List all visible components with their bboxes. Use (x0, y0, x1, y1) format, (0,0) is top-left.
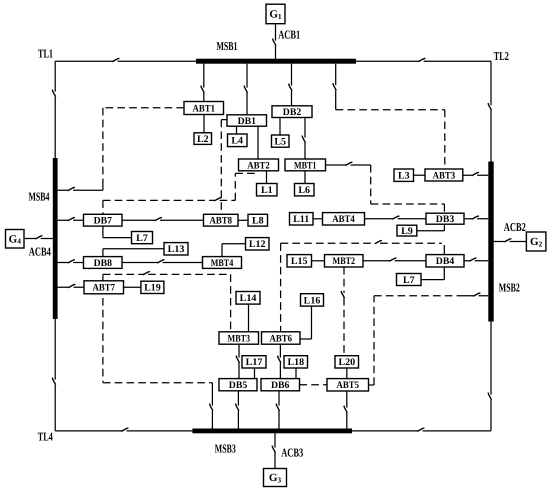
svg-text:DB4: DB4 (436, 256, 454, 267)
wire MSB1 drop to DB2 (289, 64, 292, 106)
wire MBT4 to L12 (222, 244, 246, 257)
wire ABT2 to L1 (266, 171, 268, 184)
load L2 (194, 133, 212, 145)
wire MSB4 to DB8 with breaker (58, 260, 84, 263)
svg-text:ABT8: ABT8 (210, 216, 233, 227)
svg-text:ABT2: ABT2 (247, 160, 270, 171)
distribution box ABT1 (184, 102, 224, 115)
svg-text:MSB4: MSB4 (29, 190, 50, 204)
svg-text:DB2: DB2 (283, 107, 301, 118)
wire dashed stem to DB7 top (102, 200, 104, 214)
wire DB6 to MSB3 with breaker (276, 391, 279, 429)
wire L13 to DB8 (103, 249, 164, 257)
transfer switch MBT4 (203, 257, 242, 269)
svg-text:ACB3: ACB3 (281, 446, 303, 460)
load L8 (248, 214, 268, 226)
wire dashed MBT1 to DB3 (371, 165, 445, 213)
svg-text:ABT4: ABT4 (332, 214, 355, 225)
svg-text:L16: L16 (304, 295, 321, 306)
svg-text:ACB4: ACB4 (29, 244, 51, 258)
svg-text:DB6: DB6 (271, 380, 289, 391)
wire MBT1 to L6 (304, 171, 306, 184)
wire frame left lower segment (MSB4 to TL4) (52, 319, 55, 431)
load L16 (301, 294, 324, 307)
distribution box DB6 (261, 379, 300, 392)
generator G4 (6, 230, 25, 249)
wire L3 to ABT3 (414, 174, 426, 176)
svg-text:L17: L17 (246, 357, 263, 368)
wire ABT8 to L8 (238, 219, 248, 221)
load L6 (295, 184, 315, 197)
wire dashed net below DB8 with breaker (103, 272, 231, 275)
svg-text:L15: L15 (291, 256, 308, 267)
wire DB1 to ABT2 (257, 126, 259, 159)
svg-text:MBT4: MBT4 (211, 258, 234, 269)
load L15 (287, 255, 312, 268)
svg-text:MBT1: MBT1 (294, 160, 317, 171)
load L20 (335, 356, 359, 369)
svg-text:TL1: TL1 (38, 46, 53, 60)
transfer switch ABT7 (84, 281, 124, 294)
load L11 (290, 213, 314, 226)
generator G3 (264, 469, 287, 487)
svg-text:MBT2: MBT2 (333, 256, 356, 267)
wire G3 stem with breaker ACB3 (272, 433, 275, 468)
wire dashed drop to MBT3 (230, 274, 232, 331)
load L3 (394, 169, 414, 182)
wire G2 feed with breaker ACB2 (494, 239, 527, 242)
svg-text:L14: L14 (240, 293, 257, 304)
wire L14 to MBT3 (248, 304, 250, 332)
wire ABT4 to DB3 with breaker (365, 216, 427, 219)
load L7 left (132, 232, 153, 245)
wire DB8 to MBT4 with breaker (122, 260, 203, 263)
svg-text:L1: L1 (261, 185, 273, 196)
wire dashed ABT5 right feed (369, 296, 459, 385)
svg-text:MSB2: MSB2 (499, 281, 520, 295)
svg-text:ABT5: ABT5 (337, 380, 360, 391)
wire feed to MSB2 with breaker (458, 293, 488, 296)
wire MSB4 to DB7 with breaker (58, 217, 84, 220)
bus MSB4 (53, 158, 58, 319)
svg-text:L3: L3 (398, 171, 410, 182)
svg-text:L13: L13 (168, 244, 185, 255)
wire frame right lower segment (MSB2 to corner) (488, 322, 491, 431)
svg-text:DB1: DB1 (238, 116, 256, 127)
wire stem to DB4 top (443, 245, 445, 255)
distribution box DB5 (219, 379, 257, 392)
load L19 (141, 281, 164, 294)
svg-text:MBT3: MBT3 (228, 333, 251, 344)
distribution box DB7 (84, 214, 123, 226)
wire dashed drop to ABT6 (280, 243, 282, 331)
load L1 (257, 184, 278, 197)
distribution box DB4 (426, 255, 464, 268)
transfer switch ABT4 (323, 213, 365, 226)
wire dashed MBT2 drop to L20 (341, 267, 344, 356)
svg-text:ACB1: ACB1 (278, 27, 300, 41)
load L17 (242, 356, 266, 369)
svg-text:L4: L4 (231, 136, 243, 147)
load L12 (246, 238, 270, 251)
wire L17 to DB5 (254, 368, 256, 379)
wire ABT7 to L19 (124, 286, 141, 288)
svg-text:L8: L8 (252, 216, 264, 227)
transfer switch MBT2 (325, 255, 364, 268)
wire dashed left riser to MSB4 feed (102, 108, 104, 183)
wire L11 to ABT4 (313, 218, 323, 220)
distribution box DB2 (272, 106, 312, 118)
svg-text:L12: L12 (249, 239, 266, 250)
wire MBT1 right with breaker (326, 162, 371, 165)
wire ABT3 to MSB2 with breaker (463, 172, 489, 175)
load L9 (397, 225, 417, 237)
wire dashed horizontal net with breaker (103, 198, 235, 201)
svg-text:L2: L2 (197, 134, 209, 145)
wire ABT6 to DB6 with breaker (278, 344, 281, 378)
wire dashed feed from MSB1 to ABT3 (336, 110, 445, 169)
wire ABT1 to L2 (203, 115, 205, 134)
bus MSB2 (488, 162, 493, 322)
wire dashed DB6 to ABT5 (300, 384, 328, 386)
svg-text:ACB2: ACB2 (504, 220, 526, 234)
wire L7 to DB4 (421, 266, 444, 280)
wire MSB4 feed A with breaker (58, 183, 103, 191)
load L5 (272, 135, 290, 148)
transfer switch ABT2 (239, 159, 279, 171)
wire MBT3 to DB5 with breaker (236, 344, 239, 378)
load L14 (236, 292, 260, 305)
transfer switch ABT3 (425, 169, 463, 181)
wire DB4 to MSB2 with breaker (464, 258, 488, 261)
svg-text:L20: L20 (338, 357, 355, 368)
wire L9 to DB3 (417, 224, 445, 231)
transfer switch ABT8 (204, 214, 239, 226)
svg-text:DB7: DB7 (94, 216, 112, 227)
svg-text:ABT1: ABT1 (193, 103, 216, 114)
wire frame right upper segment (TL2 to MSB2) (488, 61, 491, 161)
wire MSB4 to ABT7 with breaker (58, 284, 84, 287)
wire DB7 to ABT8 with breaker (122, 217, 204, 220)
load L4 (228, 134, 248, 147)
wire frame left upper segment (TL1 to MSB4) (52, 61, 55, 158)
wire frame top-right segment (MSB1 to TL2) (356, 58, 491, 61)
wire frame bottom-right segment (MSB3 to corner) (352, 428, 491, 431)
wire dashed DB1 left drop to ABT8 (221, 120, 227, 215)
wire dashed riser through ABT7 (102, 274, 104, 382)
wire dashed group rectangle top with breaker (281, 240, 442, 243)
wire DB5 to MSB3 with breaker (236, 391, 239, 429)
wire ABT5 to MSB3 with breaker (344, 391, 347, 429)
svg-text:L6: L6 (298, 185, 310, 196)
wire L15 to MBT2 (312, 260, 325, 262)
svg-text:L7: L7 (136, 233, 148, 244)
svg-text:ABT6: ABT6 (270, 333, 293, 344)
distribution box DB3 (426, 213, 464, 225)
wire frame bottom-left segment (TL4 to MSB3) (55, 428, 192, 431)
load L18 (284, 356, 308, 369)
svg-text:DB3: DB3 (436, 214, 454, 225)
svg-text:L7: L7 (403, 275, 415, 286)
wire riser to MSB3 with breaker (210, 383, 213, 429)
generator G2 (526, 232, 546, 251)
wire MSB1 drop to DB1 (244, 64, 247, 115)
wire dashed ABT1 to node at left (103, 107, 184, 109)
distribution box DB1 (227, 115, 267, 127)
svg-text:L19: L19 (144, 283, 161, 294)
wire L20 to ABT5 (346, 368, 348, 379)
wire dashed ABT7 branch to MSB3 riser (103, 382, 212, 384)
wire DB3 to MSB2 with breaker (464, 216, 488, 219)
svg-text:L9: L9 (401, 226, 413, 237)
wire DB1 to L4 (236, 126, 238, 134)
svg-text:MSB3: MSB3 (215, 442, 236, 456)
load L13 (164, 243, 188, 256)
transfer switch MBT3 (219, 332, 259, 345)
svg-text:L18: L18 (287, 357, 304, 368)
svg-text:ABT7: ABT7 (93, 283, 116, 294)
wire MBT2 to DB4 with breaker (363, 258, 426, 261)
wire L16 to ABT6 (300, 306, 312, 339)
wire DB7 to L7 (103, 226, 132, 238)
wire DB2 to MBT1 with breaker (302, 118, 305, 160)
wire G4 feed with breaker ACB4 (24, 236, 53, 239)
wire DB2 to L5 (279, 118, 281, 136)
wire MSB1 drop 4 with breaker (333, 64, 336, 110)
svg-text:DB8: DB8 (94, 258, 112, 269)
load L7 right (397, 274, 422, 286)
bus MSB3 (192, 429, 352, 434)
distribution box DB8 (84, 257, 123, 269)
svg-text:TL2: TL2 (494, 49, 509, 63)
bus MSB1 (196, 59, 356, 64)
svg-text:TL4: TL4 (38, 429, 53, 443)
svg-text:L5: L5 (274, 137, 286, 148)
wire MSB1 drop to ABT1 (201, 64, 204, 102)
wire dashed net corner to ABT2 (235, 173, 258, 200)
wire G1 stem with breaker ACB1 (273, 24, 276, 59)
svg-text:DB5: DB5 (229, 380, 247, 391)
transfer switch ABT5 (327, 379, 369, 392)
transfer switch MBT1 (285, 159, 326, 171)
transfer switch ABT6 (262, 332, 301, 345)
wire frame top-left segment (TL1 to MSB1) (55, 58, 196, 61)
svg-text:MSB1: MSB1 (217, 39, 238, 53)
svg-text:L11: L11 (293, 214, 309, 225)
svg-text:ABT3: ABT3 (433, 170, 456, 181)
wire L18 to DB6 (295, 368, 297, 379)
generator G1 (266, 4, 285, 24)
